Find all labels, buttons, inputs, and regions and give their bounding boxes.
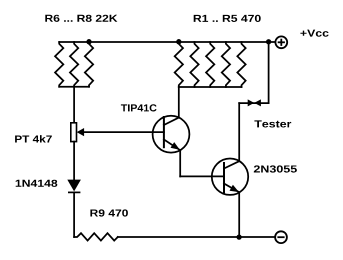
potentiometer wiper arrow xyxy=(77,128,84,136)
diode D1 cathode bar xyxy=(68,191,80,193)
label 1N4148 xyxy=(16,180,58,187)
wire bank to potentiometer xyxy=(73,87,75,123)
resistor R3 xyxy=(206,42,214,87)
transistor Q2 base bar xyxy=(223,163,225,192)
tester bowtie left triangle xyxy=(248,99,255,106)
node junction dot Q2 emitter at bottom rail xyxy=(236,234,241,239)
transistor Q2 collector diagonal xyxy=(224,161,239,168)
diode D1 1N4148 wire to bottom xyxy=(73,192,75,237)
wire wiper / Q1 base xyxy=(84,131,164,133)
wire Q1 emitter down xyxy=(179,150,181,176)
transistor Q2 emitter diagonal xyxy=(224,184,239,193)
transistor Q1 base bar xyxy=(163,117,165,147)
resistor R8 xyxy=(85,42,93,87)
transistor Q1 emitter arrow xyxy=(171,142,180,150)
label Tester xyxy=(254,120,291,127)
label 2N3055 xyxy=(254,165,297,172)
wire +Vcc branch down to tester xyxy=(268,42,270,103)
tester bowtie right triangle xyxy=(254,99,261,106)
node junction dot top of R8 xyxy=(86,39,91,44)
label +Vcc xyxy=(300,30,328,37)
wire tester horizontal xyxy=(239,102,268,104)
wire bottom rail xyxy=(118,236,275,238)
label R1 .. R5 470 xyxy=(194,15,261,22)
terminal minus xyxy=(275,231,287,243)
wire R1-R5 bottom bar xyxy=(179,86,242,88)
resistor R5 xyxy=(237,42,245,87)
wire Q2 emitter down xyxy=(238,192,240,237)
node junction dot top of R1 xyxy=(176,39,181,44)
node junction dot tester branch xyxy=(266,39,271,44)
wire top rail xyxy=(59,41,275,43)
transistor Q2 emitter arrow xyxy=(230,185,240,192)
resistor R6 xyxy=(55,42,63,87)
label PT 4k7 xyxy=(15,135,52,142)
wire bank to Q1 collector xyxy=(178,87,180,118)
resistor R1 xyxy=(175,42,183,87)
label TIP41C xyxy=(121,104,157,111)
wire potentiometer to diode xyxy=(73,142,75,180)
terminal +Vcc xyxy=(275,36,287,48)
diode D1 1N4148 triangle xyxy=(67,180,81,192)
resistor R4 xyxy=(222,42,230,87)
transistor Q2 2N3055 circle xyxy=(212,159,248,195)
potentiometer PT body xyxy=(71,123,77,142)
resistor R9 xyxy=(74,233,118,240)
wire Q1 emitter to Q2 base xyxy=(180,175,224,177)
transistor Q1 collector diagonal xyxy=(164,118,179,125)
transistor Q1 emitter diagonal xyxy=(164,140,180,151)
label R9 470 xyxy=(90,209,128,216)
wire R6-R8 bottom bar xyxy=(59,86,89,88)
resistor R7 xyxy=(70,42,78,87)
resistor R2 xyxy=(190,42,198,87)
wire tester to Q2 collector xyxy=(238,103,240,161)
label R6 ... R8 22K xyxy=(45,15,117,22)
transistor Q1 TIP41C circle xyxy=(153,116,190,153)
